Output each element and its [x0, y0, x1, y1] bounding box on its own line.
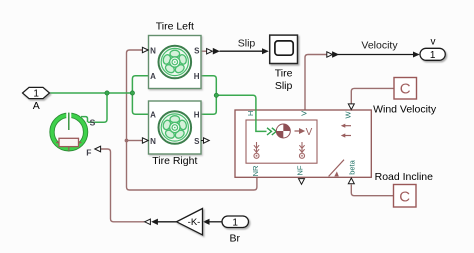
svg-text:N: N — [150, 46, 156, 55]
wire NR normal-force net (maroon PS) from Vehicle Body NR down-left-up to Tire N ports — [127, 50, 257, 190]
vehicle body H chevrons — [267, 128, 276, 135]
arrowhead PS open into tire left N — [142, 47, 148, 52]
block scope Tire Slip — [270, 35, 298, 63]
circle block (wheel hub / drum) — [50, 112, 88, 151]
svg-text:H: H — [246, 111, 255, 116]
wire brake force net (maroon PS) from gain to circle-block F port — [101, 149, 145, 222]
arrowhead into gain input — [203, 219, 210, 225]
vehicle body inner icon frame — [246, 120, 317, 163]
vehicle body wind arrows — [341, 124, 351, 138]
wire wind velocity PS net from C block to W port — [351, 88, 394, 103]
svg-text:C: C — [400, 81, 411, 98]
input port 1 hexagon A — [23, 87, 50, 98]
svg-text:1: 1 — [33, 89, 39, 100]
svg-text:v: v — [431, 36, 436, 47]
svg-text:N: N — [150, 137, 156, 146]
svg-text:Tire Left: Tire Left — [156, 21, 194, 33]
vehicle body suspension glyph front — [299, 142, 304, 158]
block Vehicle Body outer — [235, 110, 371, 177]
block Tire Right — [149, 101, 202, 154]
svg-text:Wind Velocity: Wind Velocity — [373, 104, 437, 116]
svg-text:NF: NF — [295, 165, 304, 175]
svg-text:F: F — [86, 148, 91, 158]
wire road incline PS net from C block to beta port — [351, 185, 393, 196]
output port 1 stadium v — [420, 48, 445, 60]
svg-text:Tire: Tire — [275, 68, 293, 80]
svg-text:W: W — [344, 111, 353, 119]
wire hub net H entry segment inside vehicle body — [256, 109, 267, 131]
svg-text:Velocity: Velocity — [361, 40, 398, 52]
svg-text:1: 1 — [430, 50, 436, 61]
junction dot H net — [214, 93, 218, 97]
svg-text:A: A — [33, 100, 40, 112]
arrowhead PS open brake — [145, 219, 151, 225]
wire brake simulink line from Br port to gain — [210, 221, 223, 223]
arrowhead filled slip line start — [213, 48, 220, 55]
arrowhead PS open into beta port — [348, 178, 354, 184]
arrowhead filled velocity line start — [332, 51, 339, 58]
arrowhead PS open unconnected tire right S — [201, 138, 209, 143]
wire axle net A (green conserving) from port A hexagon to both tires and circle S — [50, 76, 149, 123]
svg-text:A: A — [150, 72, 156, 81]
tire icon right — [159, 111, 192, 144]
svg-text:H: H — [194, 111, 200, 120]
junction dot A net 2 — [130, 91, 134, 95]
junction dot on NR net — [125, 139, 129, 143]
arrowhead PS open into W port — [348, 104, 354, 110]
svg-text:Road Incline: Road Incline — [375, 171, 434, 183]
svg-text:Tire Right: Tire Right — [152, 155, 197, 167]
wire slip PS stub from Tire Left S port — [201, 50, 207, 52]
svg-text:C: C — [399, 188, 410, 205]
wire hub net H (green conserving) tires to Vehicle Body H — [201, 76, 267, 132]
arrowhead PS open into F port — [95, 146, 101, 152]
vehicle body V arrow — [295, 129, 304, 133]
arrowhead filled gain output end — [151, 219, 158, 225]
block gain -K- — [177, 209, 203, 236]
tire icon left — [159, 46, 192, 79]
svg-text:V: V — [306, 127, 313, 138]
svg-text:S: S — [194, 46, 200, 55]
svg-text:1: 1 — [232, 217, 238, 228]
block C wind velocity constant — [394, 78, 417, 100]
svg-text:-K-: -K- — [188, 217, 201, 228]
block C road incline constant — [394, 185, 417, 208]
svg-text:Br: Br — [230, 233, 241, 245]
svg-text:V: V — [299, 111, 308, 116]
svg-text:H: H — [194, 72, 200, 81]
svg-text:beta: beta — [348, 159, 357, 174]
svg-text:Slip: Slip — [275, 80, 293, 92]
vehicle body slope glyph beta — [329, 160, 344, 177]
svg-text:NR: NR — [251, 165, 260, 176]
wire Slip simulink signal line to scope — [220, 50, 268, 52]
svg-text:S: S — [194, 137, 200, 146]
wire velocity PS net from Vehicle Body V port up to converter point — [305, 55, 327, 111]
block Tire Left — [149, 36, 202, 89]
wire gain output simulink line — [158, 221, 177, 223]
scope screen — [275, 41, 293, 55]
arrowhead into scope — [262, 48, 269, 54]
svg-text:Slip: Slip — [238, 37, 256, 49]
input port 1 stadium Br — [222, 216, 249, 228]
svg-text:S: S — [90, 117, 96, 127]
arrowhead into out port v — [413, 52, 420, 58]
vehicle body CG circle — [276, 124, 290, 138]
junction dot A net 1 — [105, 91, 109, 95]
arrowhead PS open slip — [207, 49, 213, 54]
vehicle body suspension glyph rear — [254, 142, 259, 158]
arrowhead PS open into tire right N — [142, 138, 148, 143]
svg-text:A: A — [150, 111, 156, 120]
arrowhead PS open velocity — [327, 52, 333, 57]
wire Velocity simulink signal line to out port — [338, 54, 419, 56]
arrowhead PS open unconnected NF — [299, 179, 305, 185]
